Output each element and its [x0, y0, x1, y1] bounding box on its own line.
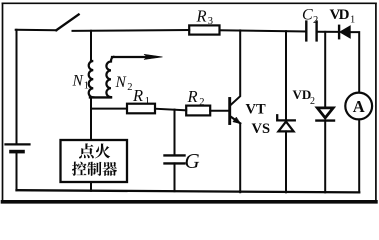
wire top bus segment switch to R3	[73, 29, 190, 32]
svg-text:C: C	[302, 7, 313, 24]
svg-text:2: 2	[313, 15, 318, 26]
wire ammeter to bottom bus	[358, 121, 360, 193]
svg-text:VD: VD	[293, 87, 312, 102]
wire VD2 drop	[324, 32, 326, 108]
wire VD2 to bottom bus	[324, 121, 326, 193]
wire VS to bottom bus	[285, 131, 287, 192]
svg-text:2: 2	[310, 96, 315, 107]
ignition controller text 点火 / 控制器	[72, 143, 117, 176]
ignition controller box	[61, 140, 128, 182]
wire left branch	[16, 30, 18, 144]
svg-text:N: N	[115, 74, 128, 91]
wire VS drop	[285, 31, 287, 120]
ammeter A	[345, 93, 372, 120]
diode VD2	[316, 108, 334, 121]
svg-text:G: G	[185, 149, 200, 173]
svg-text:1: 1	[84, 81, 89, 92]
wire VD1 to right drop	[350, 32, 359, 91]
svg-text:A: A	[353, 97, 365, 116]
wire bottom bus	[17, 190, 360, 192]
svg-text:R: R	[132, 86, 143, 105]
wire windings to controller box	[90, 97, 92, 140]
wire G drop	[174, 110, 176, 155]
svg-text:1: 1	[350, 14, 355, 25]
wire C2 to VD1	[317, 31, 338, 33]
wire top bus left segment	[16, 29, 57, 31]
svg-text:N: N	[72, 73, 85, 90]
wire G to bottom bus	[174, 163, 176, 191]
svg-text:2: 2	[127, 82, 132, 93]
transistor VT	[230, 99, 241, 124]
switch S blade	[56, 15, 78, 31]
diode VD1	[339, 26, 350, 38]
resistor R1	[127, 104, 155, 114]
zener diode VS	[277, 115, 295, 131]
wire VT collector drop	[231, 30, 240, 104]
svg-text:R: R	[196, 6, 207, 25]
battery GB	[6, 144, 30, 151]
capacitor G	[165, 155, 185, 163]
svg-text:VS: VS	[252, 121, 271, 137]
svg-text:VT: VT	[246, 102, 266, 118]
HV output wire with arrow	[112, 54, 163, 59]
svg-text:R: R	[187, 87, 198, 106]
wire junction to R1	[91, 108, 127, 110]
wire top bus segment R3 to C2	[220, 30, 307, 31]
svg-text:1: 1	[145, 96, 150, 107]
winding bottom tie	[90, 96, 111, 98]
secondary winding N2	[106, 57, 113, 97]
wire VT emitter to bottom bus	[239, 123, 241, 192]
wire N1 drop from top bus	[90, 31, 92, 61]
svg-text:3: 3	[208, 16, 213, 27]
svg-text:VD: VD	[330, 7, 350, 23]
resistor R2	[186, 106, 210, 116]
wire controller box to bottom bus	[90, 182, 92, 191]
wire battery to bottom bus	[16, 152, 18, 191]
primary winding N1	[89, 61, 94, 97]
capacitor C2	[306, 22, 316, 41]
resistor R3	[189, 25, 219, 34]
wire R1 to R2	[155, 109, 186, 111]
svg-text:2: 2	[199, 97, 204, 108]
wire R2 to VT base	[210, 110, 229, 112]
